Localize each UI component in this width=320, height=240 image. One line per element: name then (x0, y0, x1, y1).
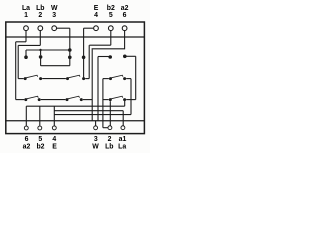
svg-text:2: 2 (38, 12, 42, 19)
svg-text:5: 5 (109, 12, 113, 19)
svg-text:La: La (118, 143, 126, 150)
svg-text:4: 4 (94, 12, 98, 19)
svg-text:3: 3 (94, 136, 98, 143)
svg-text:6: 6 (25, 136, 29, 143)
svg-text:W: W (51, 5, 58, 12)
svg-text:Lb: Lb (36, 5, 44, 12)
svg-text:W: W (92, 143, 99, 150)
svg-text:5: 5 (38, 136, 42, 143)
svg-text:b2: b2 (107, 5, 115, 12)
svg-text:a2: a2 (121, 5, 129, 12)
svg-text:4: 4 (52, 136, 56, 143)
svg-text:a2: a2 (23, 143, 31, 150)
svg-text:b2: b2 (36, 143, 44, 150)
svg-text:E: E (52, 143, 57, 150)
svg-text:3: 3 (52, 12, 56, 19)
svg-text:E: E (94, 5, 99, 12)
svg-text:2: 2 (108, 136, 112, 143)
svg-text:a1: a1 (119, 136, 127, 143)
svg-text:1: 1 (24, 12, 28, 19)
svg-text:6: 6 (123, 12, 127, 19)
svg-text:La: La (22, 5, 30, 12)
svg-text:Lb: Lb (105, 143, 113, 150)
